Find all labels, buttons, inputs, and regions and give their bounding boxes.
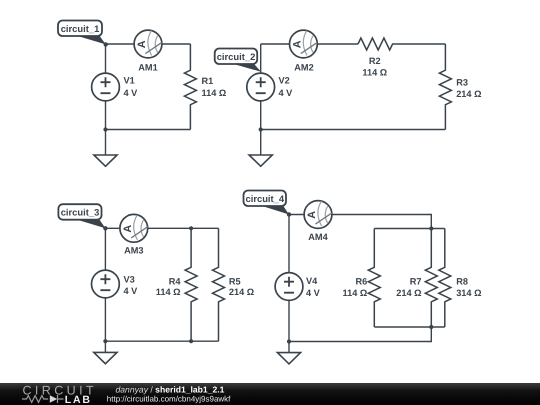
resistor R8 — [439, 229, 482, 328]
svg-text:AM3: AM3 — [124, 246, 143, 256]
voltage source V1 — [92, 44, 139, 130]
wire top rail circuit 3 — [105, 227, 218, 229]
ground circuit 3 — [94, 341, 117, 364]
svg-text:114 Ω: 114 Ω — [343, 288, 368, 298]
resistor R4 — [156, 228, 197, 341]
ground circuit 2 — [249, 130, 272, 167]
svg-text:circuit_4: circuit_4 — [246, 193, 285, 204]
svg-text:A: A — [306, 211, 318, 219]
voltage source V4 — [275, 215, 321, 342]
svg-text:114 Ω: 114 Ω — [156, 287, 181, 297]
footer logo resistor-diode glyph — [22, 395, 64, 403]
wire bottom bus circuit 4 — [374, 326, 445, 328]
ammeter AM4 — [304, 201, 332, 243]
svg-text:V3: V3 — [124, 275, 135, 285]
svg-text:V2: V2 — [279, 75, 290, 85]
node junction circuit 2 bottom — [259, 127, 263, 131]
net label circuit_2 — [215, 49, 261, 72]
ammeter AM2 — [290, 30, 318, 72]
svg-text:circuit_1: circuit_1 — [61, 23, 100, 34]
resistor R1 — [184, 44, 226, 130]
resistor R2 — [358, 38, 445, 78]
svg-text:R8: R8 — [456, 276, 468, 286]
node B circuit_3 pointer node — [103, 226, 107, 230]
svg-text:V1: V1 — [124, 75, 135, 85]
svg-text:A: A — [291, 40, 303, 48]
voltage source V3 — [92, 228, 139, 341]
svg-text:LAB: LAB — [65, 394, 92, 405]
svg-text:A: A — [122, 225, 134, 233]
ground circuit 1 — [94, 130, 117, 167]
net label circuit_4 — [244, 191, 290, 215]
node C circuit_4 pointer node — [287, 212, 291, 216]
svg-text:dannyay / sherid1_lab1_2.1: dannyay / sherid1_lab1_2.1 — [116, 384, 225, 394]
node junction circuit 4 bottom left — [287, 339, 291, 343]
svg-text:4 V: 4 V — [124, 286, 139, 296]
node junction bottom bus circuit 4 — [429, 325, 433, 329]
svg-text:AM1: AM1 — [138, 62, 157, 72]
footer CircuitLab logo wordmark — [23, 384, 98, 405]
wire bottom rail circuit 4 — [289, 327, 431, 342]
svg-text:214 Ω: 214 Ω — [456, 89, 481, 99]
node junction R4 top — [189, 226, 193, 230]
node A circuit_1 pointer node — [104, 42, 108, 46]
wire bottom rail circuit 3 — [105, 340, 218, 342]
wire top rail circuit 1 — [106, 43, 191, 45]
resistor R5 — [213, 228, 255, 341]
svg-text:R6: R6 — [356, 276, 368, 286]
net label circuit_3 — [58, 204, 105, 228]
svg-text:V4: V4 — [306, 276, 318, 286]
wire top rail circuit 2 — [261, 43, 358, 45]
node junction circuit 3 bottom left — [103, 339, 107, 343]
svg-text:214 Ω: 214 Ω — [396, 288, 421, 298]
resistor R6 — [343, 229, 381, 328]
footer bar — [0, 383, 540, 405]
svg-text:314 Ω: 314 Ω — [456, 288, 481, 298]
ground circuit 4 — [277, 342, 300, 364]
node junction top bus circuit 4 — [429, 226, 433, 230]
node junction R4 bottom — [189, 339, 193, 343]
svg-text:http://circuitlab.com/cbn4yj9s: http://circuitlab.com/cbn4yj9s9awkf — [107, 394, 231, 403]
resistor R7 — [396, 229, 437, 328]
svg-text:214 Ω: 214 Ω — [229, 287, 254, 297]
svg-text:AM2: AM2 — [294, 62, 313, 72]
svg-text:R5: R5 — [229, 276, 241, 286]
svg-text:R4: R4 — [169, 276, 182, 286]
ammeter AM3 — [120, 214, 148, 255]
voltage source V2 — [247, 44, 293, 130]
svg-text:circuit_2: circuit_2 — [217, 51, 256, 62]
svg-text:A: A — [136, 40, 148, 48]
svg-text:R2: R2 — [369, 56, 381, 66]
svg-text:114 Ω: 114 Ω — [202, 88, 227, 98]
ammeter AM1 — [134, 30, 162, 72]
svg-text:R1: R1 — [202, 76, 214, 86]
svg-text:114 Ω: 114 Ω — [362, 68, 387, 78]
svg-text:circuit_3: circuit_3 — [61, 207, 100, 218]
wire bottom rail circuit 2 — [261, 129, 446, 131]
svg-text:R7: R7 — [410, 276, 422, 286]
wire top bus circuit 4 — [374, 228, 445, 230]
wire bottom rail circuit 1 — [106, 129, 191, 131]
resistor R3 — [439, 44, 481, 130]
svg-text:4 V: 4 V — [124, 88, 139, 98]
svg-text:AM4: AM4 — [308, 232, 328, 242]
svg-text:4 V: 4 V — [306, 288, 321, 298]
node junction circuit 1 bottom — [103, 127, 107, 131]
net label circuit_1 — [58, 21, 106, 45]
svg-text:4 V: 4 V — [279, 88, 294, 98]
svg-text:R3: R3 — [456, 78, 468, 88]
wire top rail circuit 4 — [289, 215, 431, 229]
